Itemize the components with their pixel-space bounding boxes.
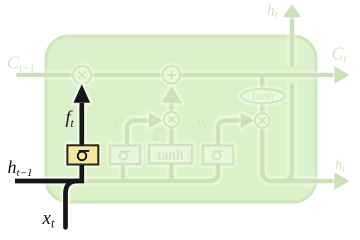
op multiply node on C line (forget gate target) [70, 63, 95, 88]
gate forget sigma box (highlighted yellow) [67, 145, 98, 164]
node forget arrowhead into multiply node [74, 84, 91, 103]
op tanh oval [237, 85, 289, 107]
svg-text:ht−1: ht−1 [8, 157, 33, 179]
svg-text:tanh: tanh [252, 89, 274, 103]
op multiply node (candidate x input gate) [161, 109, 183, 131]
gate forget sigma box halo [64, 142, 101, 168]
gate sigma3 box (output gate, faded) [203, 146, 233, 165]
op multiply node (output gate) [252, 110, 273, 131]
wire C line (cell state, faded) [16, 66, 349, 83]
wire internal bottom h rail with stems below gate boxes (faded) [84, 164, 218, 182]
node C_t arrowhead [335, 66, 350, 83]
svg-text:xt: xt [42, 208, 55, 231]
op add node on C line [159, 63, 183, 87]
wire black highlighted skeleton: h_{t-1} line, x_t line, stem, forget arrow shaft [15, 84, 90, 227]
gate box halos (faded) [106, 142, 144, 169]
wire C line branch into tanh oval and on to output mult node (faded) [257, 77, 268, 113]
wire i gate path (faded) [127, 113, 163, 145]
svg-text:ht: ht [267, 3, 279, 22]
wire tanh box stem to mult node and up-arrow into add node (faded) [162, 86, 182, 145]
node h_t top arrowhead [283, 4, 301, 17]
svg-text:tanh: tanh [158, 147, 184, 163]
wire o gate path (faded) [218, 113, 255, 145]
gate sigma2 box (input gate, faded) [110, 146, 140, 165]
svg-text:Ct−1: Ct−1 [7, 53, 35, 75]
svg-text:ht: ht [335, 158, 345, 176]
wire output path: U from output mult node to h_t right arrow plus up branch to h_t top (faded) [262, 4, 349, 190]
LSTM cell body [46, 36, 316, 202]
node h_t right arrowhead [335, 172, 350, 189]
gate tanh box (faded) [149, 145, 192, 164]
svg-text:Ct: Ct [332, 44, 348, 66]
